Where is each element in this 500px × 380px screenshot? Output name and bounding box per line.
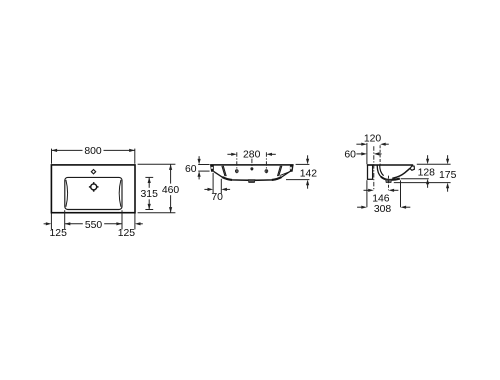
dimension 128 (side view) <box>401 155 451 188</box>
right rim end block (front view) <box>290 166 294 172</box>
basin bowl left wall curve <box>66 180 68 207</box>
dimension 550 (bottom) <box>51 210 134 229</box>
svg-text:460: 460 <box>162 185 180 196</box>
dimension 60 (front view, left) <box>198 156 209 179</box>
svg-text:280: 280 <box>243 150 261 161</box>
drain (top view) <box>89 182 99 192</box>
bowl underside curve (front view) <box>223 177 282 180</box>
dimension 280 (front view) <box>227 153 275 155</box>
bowl front rising line (side view) <box>392 168 410 178</box>
svg-text:315: 315 <box>141 189 159 200</box>
bowl underside thick right segment (front view) <box>272 177 282 180</box>
front deck edge dashed extension (side view) <box>379 145 381 165</box>
bowl back wall inner curve (side view) <box>380 165 384 175</box>
dimension 60 (side view) <box>356 153 362 155</box>
svg-text:175: 175 <box>439 170 457 181</box>
bowl underside thick left segment (front view) <box>222 177 232 180</box>
svg-text:142: 142 <box>300 168 318 179</box>
right rim underside edge (front view) <box>280 171 291 176</box>
svg-text:60: 60 <box>344 150 356 161</box>
dimension 142 (front view, right) <box>286 155 309 188</box>
dimension 175 (side view) <box>394 155 451 192</box>
right underside slope (front view) <box>281 171 290 177</box>
front rim tip (side view) <box>410 166 414 170</box>
svg-text:550: 550 <box>85 220 103 231</box>
svg-text:60: 60 <box>185 164 197 175</box>
dimension 120 (side view) <box>356 143 388 145</box>
centerline right faucet hole <box>265 152 267 173</box>
bowl bottom band (side view) <box>381 177 400 180</box>
dimension 800 (top) <box>52 149 135 164</box>
basin bowl right wall curve <box>119 180 121 207</box>
dimension 125 left <box>44 223 47 225</box>
left underside slope (front view) <box>214 171 223 177</box>
dimension 315 (inside-right of plan) <box>145 177 153 209</box>
top deck edge (side view) <box>367 164 413 166</box>
drain fitting (front view) <box>248 180 255 183</box>
wall extension line (side view) <box>366 143 368 207</box>
dimension 125 right <box>140 223 143 225</box>
dimension 146 (side view) <box>364 189 369 191</box>
centerline middle <box>251 159 253 171</box>
faucet hole right (front view) <box>265 170 268 173</box>
drain centerline (side view) <box>388 176 390 191</box>
svg-text:125: 125 <box>118 228 136 239</box>
svg-text:120: 120 <box>364 134 382 145</box>
front bottom extension line (side view) <box>400 180 402 207</box>
svg-text:128: 128 <box>418 168 436 179</box>
dimension 308 (side view) <box>357 206 362 208</box>
top rim edge (front view) <box>210 164 294 166</box>
left bowl inner wall lines (front view) <box>222 166 225 176</box>
faucet centerline (side view) <box>373 146 375 190</box>
svg-text:800: 800 <box>84 146 102 157</box>
svg-text:70: 70 <box>211 192 223 203</box>
svg-text:308: 308 <box>374 204 392 215</box>
bowl back wall outer curve (side view) <box>377 165 381 177</box>
svg-text:125: 125 <box>50 228 68 239</box>
washbasin outer rim rect (top view) <box>51 165 135 213</box>
basin bowl outline (top view) <box>65 177 122 209</box>
faucet hole center (front view) <box>251 168 253 170</box>
right bowl inner wall lines (front view) <box>279 166 282 176</box>
drain trap (side view) <box>386 180 392 183</box>
svg-text:146: 146 <box>372 193 390 204</box>
back mounting edge (side view) <box>368 165 373 179</box>
left rim end block (front view) <box>210 166 214 172</box>
dimension 70 (front view) <box>204 173 230 194</box>
faucet hole (top view, diamond) <box>91 170 95 174</box>
centerline left faucet hole <box>236 152 238 173</box>
faucet hole left (front view) <box>235 170 238 173</box>
dimension 460 (right of plan) <box>138 164 176 212</box>
